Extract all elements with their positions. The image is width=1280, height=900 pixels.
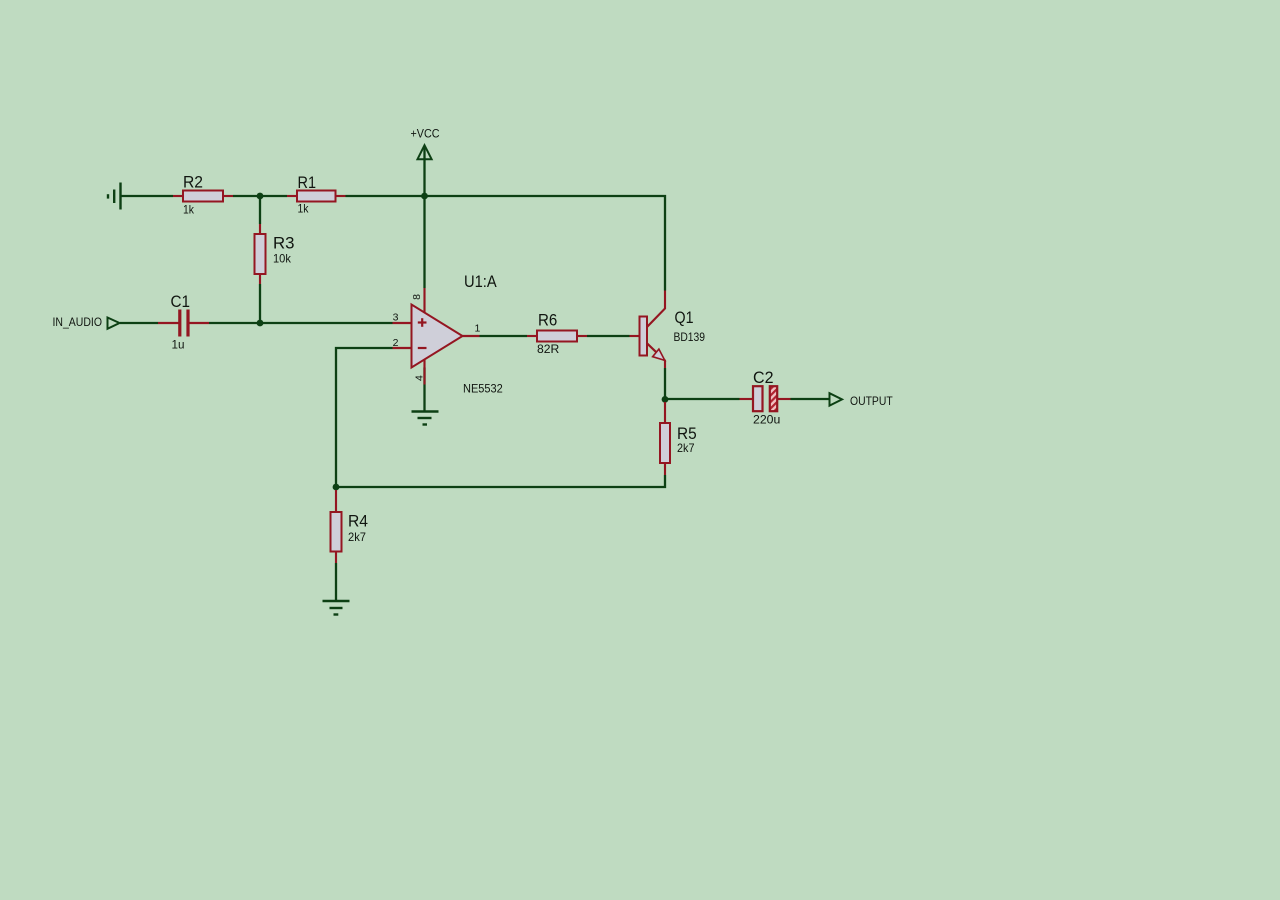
svg-text:220u: 220u xyxy=(753,412,780,426)
svg-text:1u: 1u xyxy=(172,337,185,351)
svg-text:R6: R6 xyxy=(538,311,557,330)
svg-text:2k7: 2k7 xyxy=(348,530,366,544)
svg-text:C2: C2 xyxy=(753,368,774,387)
svg-text:R1: R1 xyxy=(298,173,317,192)
svg-text:82R: 82R xyxy=(537,342,560,356)
svg-text:2: 2 xyxy=(393,337,399,349)
svg-text:1k: 1k xyxy=(298,202,310,216)
svg-text:3: 3 xyxy=(393,312,399,324)
svg-text:NE5532: NE5532 xyxy=(463,382,503,396)
svg-text:BD139: BD139 xyxy=(674,330,706,344)
svg-text:R3: R3 xyxy=(273,233,295,252)
svg-text:R5: R5 xyxy=(677,424,697,443)
svg-text:OUTPUT: OUTPUT xyxy=(850,394,893,408)
svg-text:R4: R4 xyxy=(348,512,368,531)
svg-text:C1: C1 xyxy=(171,292,191,311)
svg-text:+VCC: +VCC xyxy=(411,127,440,141)
svg-text:8: 8 xyxy=(411,294,423,300)
svg-text:R2: R2 xyxy=(183,173,203,192)
svg-text:Q1: Q1 xyxy=(675,308,694,327)
svg-text:4: 4 xyxy=(413,375,425,381)
svg-text:2k7: 2k7 xyxy=(677,441,695,455)
svg-text:IN_AUDIO: IN_AUDIO xyxy=(53,315,103,329)
svg-text:1: 1 xyxy=(475,323,481,335)
svg-text:1k: 1k xyxy=(183,203,195,217)
svg-text:U1:A: U1:A xyxy=(464,272,497,291)
svg-text:10k: 10k xyxy=(273,251,292,265)
